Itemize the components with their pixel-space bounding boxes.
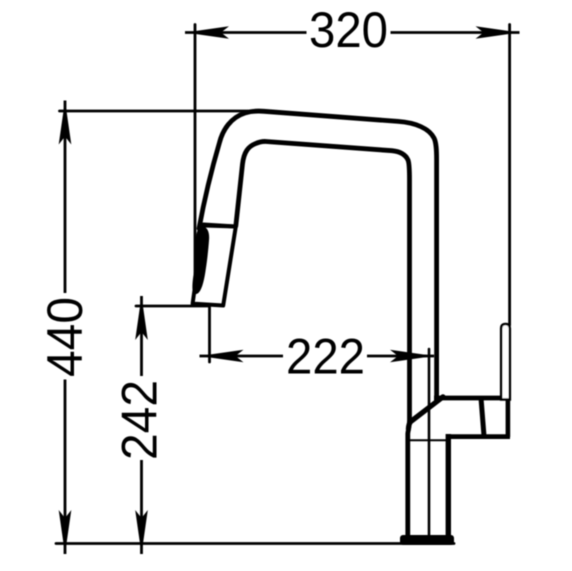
svg-text:222: 222 xyxy=(286,328,365,385)
mixer body right edge xyxy=(506,396,511,437)
dim 222 right arrowhead xyxy=(390,350,434,363)
svg-text:320: 320 xyxy=(309,1,388,58)
dim 320 left arrowhead xyxy=(185,26,229,39)
dim 222 dimension line xyxy=(200,355,435,358)
dim 320 dimension line xyxy=(185,31,520,34)
faucet spout outer contour (left leg, top arc, right column wall) xyxy=(199,111,437,398)
dim 440 top extension line xyxy=(60,110,249,113)
dim 440 dimension line xyxy=(64,101,67,555)
dim 222 left arrowhead xyxy=(200,350,244,363)
dim 242 up arrowhead xyxy=(135,296,148,340)
base plate (filled) xyxy=(400,535,454,545)
dim 320 left extension line xyxy=(194,25,197,294)
spray head body xyxy=(193,226,236,306)
svg-text:242: 242 xyxy=(111,380,168,460)
handle lever xyxy=(501,324,510,400)
column joint line xyxy=(410,439,448,441)
dim 440 up arrowhead xyxy=(59,101,72,145)
counter baseline xyxy=(56,542,454,545)
dim 242 dimension line xyxy=(140,296,143,554)
mixer body divider xyxy=(481,398,484,436)
dim 242 down arrowhead xyxy=(135,510,148,554)
dim 242 top extension line xyxy=(136,305,209,308)
lower column right wall xyxy=(446,434,451,535)
svg-text:440: 440 xyxy=(36,297,93,377)
column centerline / 222 right extension xyxy=(428,349,431,535)
mixer body top edge xyxy=(434,396,508,401)
mixer body bottom edge xyxy=(450,434,510,439)
dim 320 right extension line xyxy=(508,25,511,326)
dim 440 down arrowhead xyxy=(59,510,72,554)
dim 222 left extension line xyxy=(208,307,211,362)
faucet spout inner contour xyxy=(236,141,410,535)
body chamfer diagonal xyxy=(408,397,443,429)
dim 320 right arrowhead xyxy=(476,26,520,39)
spray head joint line xyxy=(204,225,236,227)
spray head trigger (filled) xyxy=(192,226,209,294)
